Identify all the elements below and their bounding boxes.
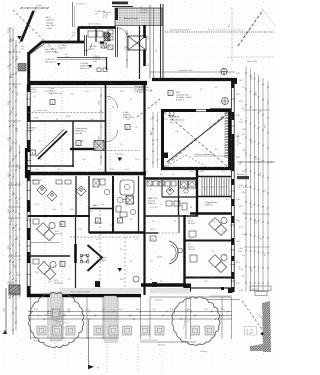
terrace verticals	[30, 297, 32, 339]
chevron partition	[88, 245, 103, 271]
washer 2	[189, 181, 196, 188]
wall stub y42 x100	[100, 41, 104, 43]
top small roof line	[112, 6, 133, 8]
bed 2	[209, 254, 227, 272]
wall x76 lower	[75, 216, 77, 295]
boxed label room1	[50, 100, 55, 105]
closet 2	[190, 255, 197, 262]
survey marker triangle	[17, 36, 21, 40]
boundary double wall x161	[160, 4, 162, 79]
x-braced shaft box	[128, 36, 146, 50]
wall y233 right of wc	[144, 232, 158, 234]
south wall right wing	[141, 283, 186, 286]
wc cluster walls	[88, 176, 90, 233]
left site line bottom	[5, 288, 7, 333]
faint dotted verticals bottom	[106, 344, 108, 374]
dark block terrace door	[95, 281, 100, 287]
left small arrow bottom	[3, 330, 8, 334]
dimension tick line top-left	[21, 7, 48, 9]
north arrow	[88, 365, 94, 370]
hatched block bottom-left	[9, 285, 20, 294]
tree crown 2	[172, 297, 220, 345]
black triangle marker mid	[118, 158, 123, 162]
building east wall with piers	[230, 80, 232, 292]
black triangle marker low	[118, 268, 123, 272]
carport diagonal	[137, 99, 160, 117]
inner wall x96 top	[95, 28, 97, 43]
double wall x116	[115, 27, 117, 57]
vertical wall x105 upper	[106, 57, 108, 70]
black pier segments x144	[143, 25, 146, 38]
dim chain x157 garage	[157, 112, 159, 168]
extra furniture rects	[120, 212, 127, 217]
hatched block left edge	[18, 64, 26, 72]
wall top room vertical	[77, 28, 80, 43]
wc room wall y233	[89, 231, 144, 233]
terrace planters	[37, 326, 46, 335]
crosshatch shaft block	[94, 141, 104, 151]
stair run arrow	[203, 186, 227, 188]
wall top room horizontal	[78, 26, 116, 29]
dimension chain x127	[126, 30, 128, 68]
room divider y166 left	[25, 165, 74, 167]
bathtub	[120, 180, 134, 195]
south wall left wing	[27, 294, 141, 298]
dashed line y150 mid	[100, 150, 140, 152]
right wing bottom wall 2	[186, 287, 232, 289]
terrace horizontal top right	[150, 296, 231, 298]
garage east wall	[228, 109, 231, 170]
divider y255 left	[28, 255, 70, 257]
tree inner marks 1	[50, 316, 65, 329]
room divider y121	[28, 120, 105, 122]
sofa arc	[169, 241, 178, 264]
stairwell walls	[198, 176, 231, 178]
grenze line bottom-left	[30, 337, 118, 339]
dotted text row right	[237, 186, 250, 188]
right margin dark text block	[237, 176, 249, 179]
ramp exterior wall diagonal	[30, 42, 85, 53]
boundary diagonal bottom-right	[242, 301, 264, 332]
gray curb blocks bottom	[104, 339, 118, 343]
dotted diagonal right	[263, 10, 275, 26]
garage diagonal dashed 1	[164, 112, 228, 167]
small circle fixture	[133, 276, 139, 282]
dotted boundary horizontal	[208, 29, 243, 31]
utility divider x178	[178, 180, 180, 216]
ramp hatch ticks	[29, 52, 32, 56]
main north wall right part	[152, 78, 237, 81]
boundary wall x139	[139, 26, 141, 79]
hatched ramp band	[19, 10, 36, 43]
terrace gray strip 2	[104, 296, 117, 341]
west wall window mullions	[26, 98, 31, 100]
dashed site boundary diagonal	[13, 10, 57, 53]
wc wall y208	[89, 208, 113, 210]
left dimension chain 2	[12, 28, 14, 335]
gray band above south wall	[60, 288, 141, 294]
washer 1	[181, 181, 188, 188]
utility lower fixtures	[166, 201, 172, 206]
fixture circle carport	[222, 98, 229, 105]
garage diagonal solid	[167, 117, 224, 162]
main north wall left part	[28, 81, 147, 85]
room divider x73	[72, 121, 74, 167]
corridor south wall right	[190, 212, 232, 215]
ledge lines y57	[57, 57, 106, 59]
thin verticals x72 top	[72, 2, 74, 27]
bottom dim line 1	[28, 311, 232, 313]
dotted vertical x110	[109, 90, 111, 170]
room divider y240	[184, 240, 232, 242]
thin verticals x150	[149, 5, 151, 79]
gray band right terrace	[150, 288, 190, 294]
boxed label room2r	[76, 141, 81, 146]
wall x179 segment	[178, 216, 180, 233]
hatch band right edge	[262, 301, 271, 352]
tree inner marks 2	[203, 326, 206, 328]
south wall bottom right corner block	[185, 284, 192, 292]
garage north wall	[161, 109, 196, 112]
tree crown 1	[29, 293, 84, 348]
double wall x85	[84, 35, 86, 56]
left chain cross ticks	[8, 51, 21, 53]
dashed verticals lower left wing	[99, 210, 101, 290]
garage west wall	[161, 109, 164, 170]
grenze dotted line	[165, 31, 275, 33]
x-marked fixture a	[101, 43, 107, 48]
utility fixtures	[147, 181, 152, 186]
wall stub y150 to shaft	[70, 148, 94, 150]
east wall window mullions	[230, 98, 235, 100]
black square dot terrace	[221, 287, 224, 290]
central wall left pier	[25, 148, 28, 178]
bed 1	[209, 217, 227, 235]
dotted boundary vertical	[231, 8, 233, 62]
planter dark box strip1	[53, 309, 61, 317]
stair diagonal left wing	[38, 131, 67, 159]
utility north wall	[144, 177, 198, 180]
garage door swing lines	[164, 155, 186, 168]
terrace gray strip 1	[50, 292, 62, 341]
garage right wall hatch band	[225, 111, 230, 114]
bath wall y216	[28, 215, 90, 217]
central corridor wall	[25, 172, 146, 175]
small marker triangle mid-top	[89, 65, 92, 68]
left beds	[37, 222, 55, 240]
dim chain left of garage	[152, 112, 154, 168]
hatch band bottom extension	[250, 344, 263, 351]
left boxed labels	[60, 222, 65, 227]
dotted horizontal y57	[228, 56, 275, 58]
left dimension chain 4	[19, 145, 21, 298]
small marker triangle ramp	[57, 63, 60, 66]
left dimension chain 3	[15, 40, 17, 330]
utility mid wall y197	[162, 196, 197, 198]
door arc ramp area	[84, 43, 92, 51]
dotted vertical x62	[61, 88, 63, 293]
crosshatch column top	[104, 33, 110, 41]
shaft xbox	[126, 196, 134, 204]
dining table	[81, 255, 88, 262]
boxed label 2	[118, 218, 123, 223]
corridor wall x105	[105, 84, 107, 172]
crosshatched existing building block	[115, 8, 162, 26]
boxed label 1	[96, 218, 101, 223]
wall y148 stub	[70, 148, 94, 150]
thin line under north wall	[30, 87, 145, 89]
dashed line y238	[70, 236, 140, 238]
left dimension chain 1	[9, 28, 11, 298]
dashed diagonal carport	[238, 10, 263, 46]
divider wall x144	[143, 84, 145, 295]
room divider y277	[184, 277, 232, 279]
garage south wall	[161, 167, 231, 170]
garage diagonal dashed 2	[164, 112, 228, 167]
ramp lower parallel line	[28, 44, 45, 56]
bottom dim line 2	[28, 315, 232, 317]
door sill line y242	[30, 242, 60, 244]
top right boxed dims	[250, 286, 271, 291]
steps bottom right	[207, 299, 240, 301]
right margin cross ticks	[244, 109, 270, 111]
top room small fixtures	[108, 30, 113, 34]
west wall upper section	[27, 52, 30, 84]
door arc corridor 2	[106, 130, 118, 142]
grenze line bottom-right	[140, 341, 196, 343]
dashed ceiling line y112	[28, 112, 105, 114]
right dimension chains	[245, 66, 247, 292]
black dot right	[260, 332, 264, 336]
x-marked fixture b	[108, 45, 113, 50]
stairwell treads	[201, 178, 203, 197]
bottom dim line 3	[28, 318, 232, 320]
utility south wall	[144, 215, 198, 217]
garage black fixture	[164, 153, 169, 159]
bath divider x76	[75, 176, 77, 216]
section line vertical	[88, 320, 90, 364]
circle fixture above wall	[221, 68, 227, 74]
dashed site boundary diagonal 2	[57, 29, 79, 53]
wc fixtures	[93, 179, 99, 187]
kitchen fixtures	[88, 31, 96, 37]
lower divider x184	[183, 215, 185, 290]
bath fixtures diamonds	[37, 185, 47, 195]
thin line above north wall	[150, 71, 235, 73]
boxed label mid column	[125, 125, 130, 130]
bath sink circles	[117, 197, 122, 202]
north wall corner right	[235, 79, 237, 84]
boxed label stair	[31, 150, 36, 155]
carport label box	[168, 91, 173, 96]
door arc corridor 1	[106, 96, 118, 108]
door arc top room	[98, 42, 105, 49]
door arc x118	[118, 28, 127, 37]
dotted vertical x45	[44, 124, 46, 293]
closet 1	[189, 231, 196, 237]
black block right wing bottom	[228, 288, 233, 293]
utility east wall x197	[196, 170, 198, 216]
building west wall with window piers	[26, 84, 28, 297]
dim chain x101	[100, 88, 102, 165]
carport inner line	[210, 108, 231, 110]
right margin dim line y162	[237, 161, 275, 163]
